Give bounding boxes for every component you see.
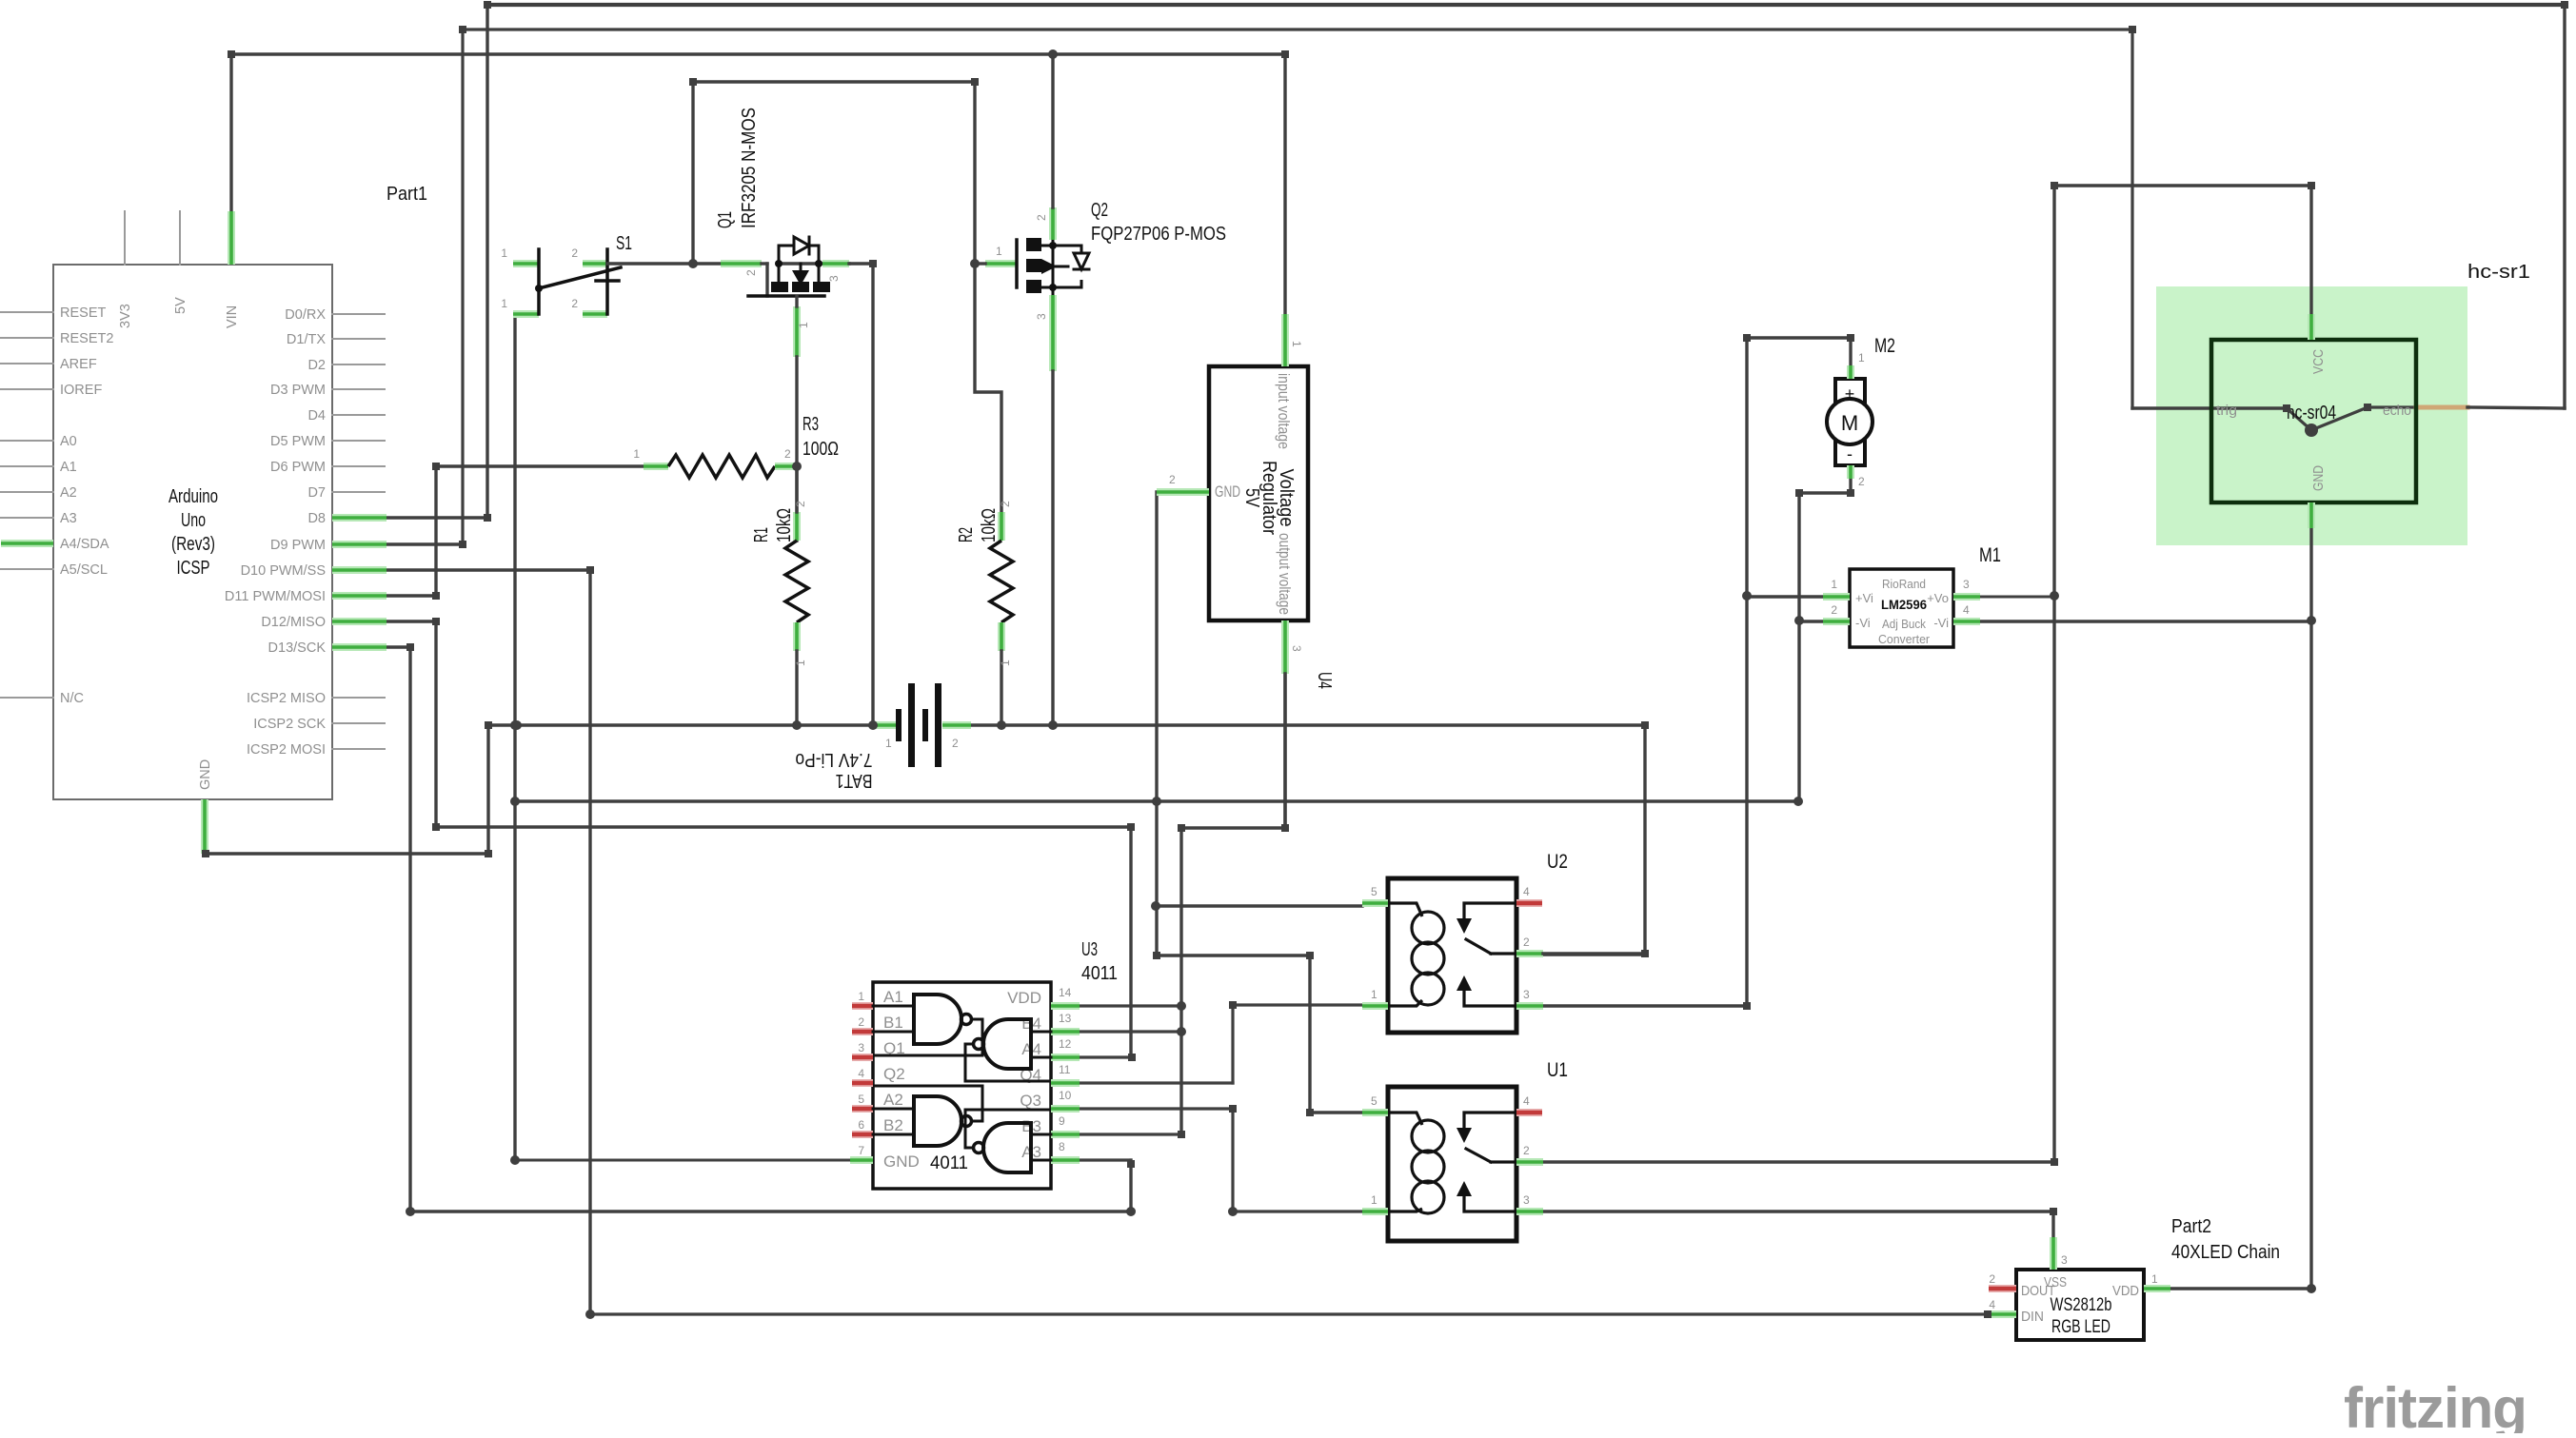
svg-text:4: 4 [1523,885,1530,898]
svg-text:M2: M2 [1874,335,1895,357]
svg-text:100Ω: 100Ω [803,439,839,460]
svg-text:4011: 4011 [1081,963,1118,984]
svg-text:D0/RX: D0/RX [285,307,326,323]
svg-text:+Vi: +Vi [1855,591,1873,605]
svg-text:hc-sr04: hc-sr04 [2287,403,2336,424]
svg-text:VDD: VDD [1007,989,1041,1007]
svg-text:ICSP2 SCK: ICSP2 SCK [253,717,326,732]
svg-text:1: 1 [1371,988,1377,1001]
svg-text:1: 1 [999,660,1012,666]
svg-text:GND: GND [198,759,213,790]
svg-text:13: 13 [1059,1012,1072,1025]
svg-text:D7: D7 [307,485,326,501]
svg-text:D3 PWM: D3 PWM [270,383,326,398]
svg-text:1: 1 [1371,1193,1377,1207]
svg-text:11: 11 [1059,1063,1071,1076]
svg-text:2: 2 [952,737,959,750]
svg-text:D9 PWM: D9 PWM [270,538,326,553]
svg-text:WS2812b: WS2812b [2051,1295,2112,1315]
svg-text:+Vo: +Vo [1927,591,1949,605]
svg-text:2: 2 [1523,1144,1530,1157]
svg-text:FQP27P06 P-MOS: FQP27P06 P-MOS [1091,224,1226,245]
svg-text:1: 1 [797,322,810,328]
svg-text:B1: B1 [883,1014,903,1032]
svg-text:RESET2: RESET2 [60,331,113,346]
svg-text:1: 1 [996,245,1002,258]
svg-text:D12/MISO: D12/MISO [261,615,326,630]
svg-text:Part2: Part2 [2171,1216,2211,1237]
svg-text:4: 4 [1963,603,1970,617]
svg-text:-: - [1847,444,1853,463]
svg-text:GND: GND [1215,483,1240,501]
svg-text:4011: 4011 [930,1153,968,1173]
svg-text:3: 3 [1523,988,1530,1001]
svg-text:8: 8 [1059,1140,1065,1153]
svg-text:ICSP2 MOSI: ICSP2 MOSI [247,742,326,758]
svg-text:2: 2 [999,501,1012,507]
svg-text:input voltage: input voltage [1275,373,1293,449]
svg-text:Adj Buck: Adj Buck [1882,617,1926,631]
svg-text:2: 2 [858,1015,864,1029]
svg-text:A2: A2 [883,1091,903,1109]
svg-text:2: 2 [1169,473,1176,486]
svg-text:U3: U3 [1081,939,1098,960]
svg-text:3: 3 [1963,578,1970,591]
svg-text:ICSP2 MISO: ICSP2 MISO [247,691,326,706]
svg-text:Converter: Converter [1878,632,1931,646]
svg-text:3: 3 [2061,1253,2068,1267]
svg-text:A4/SDA: A4/SDA [60,537,109,552]
svg-text:1: 1 [885,737,892,750]
svg-text:D8: D8 [307,511,326,526]
svg-text:3: 3 [1035,313,1048,320]
svg-text:Q3: Q3 [1020,1092,1041,1110]
svg-text:2: 2 [1831,603,1837,617]
svg-text:3: 3 [1290,645,1303,652]
svg-text:ICSP: ICSP [177,558,210,579]
svg-text:N/C: N/C [60,691,84,706]
svg-text:U4: U4 [1314,672,1335,689]
svg-text:1: 1 [2151,1272,2158,1286]
svg-text:IOREF: IOREF [60,383,102,398]
svg-text:-Vi: -Vi [1933,616,1949,630]
svg-text:fritzing: fritzing [2344,1376,2526,1433]
svg-text:R3: R3 [803,414,819,435]
svg-text:Q2: Q2 [883,1065,905,1083]
svg-text:6: 6 [858,1118,864,1132]
svg-text:5: 5 [1371,1094,1377,1108]
svg-text:B2: B2 [883,1116,903,1134]
svg-text:2: 2 [784,447,791,461]
svg-text:2: 2 [1989,1272,1995,1286]
svg-text:Q1: Q1 [715,211,736,228]
svg-text:A5/SCL: A5/SCL [60,562,108,578]
svg-text:7.4V Li-Po: 7.4V Li-Po [796,749,873,770]
svg-text:A3: A3 [60,511,77,526]
svg-text:1: 1 [1831,578,1837,591]
svg-text:5: 5 [858,1093,864,1106]
svg-text:M: M [1841,411,1858,435]
svg-text:2: 2 [1858,475,1865,488]
svg-text:VIN: VIN [225,305,240,328]
svg-text:2: 2 [571,297,578,310]
svg-text:A2: A2 [60,485,77,501]
svg-text:1: 1 [633,447,640,461]
svg-text:7: 7 [858,1144,864,1157]
svg-text:9: 9 [1059,1114,1065,1128]
svg-text:1: 1 [1858,351,1865,364]
svg-text:U1: U1 [1547,1059,1568,1081]
svg-text:2: 2 [1523,936,1530,949]
svg-text:1: 1 [858,990,864,1003]
svg-text:Q2: Q2 [1091,200,1108,221]
svg-text:trig: trig [2216,403,2237,419]
svg-text:R1: R1 [751,527,772,542]
svg-text:1: 1 [794,660,807,666]
svg-text:AREF: AREF [60,357,97,372]
svg-text:hc-sr1: hc-sr1 [2467,262,2530,283]
svg-text:Part1: Part1 [386,184,427,205]
svg-text:LM2596: LM2596 [1881,597,1927,612]
svg-text:3: 3 [827,275,841,282]
svg-text:D1/TX: D1/TX [287,332,326,347]
svg-text:echo: echo [2383,403,2411,419]
svg-text:R2: R2 [956,527,977,542]
svg-text:DIN: DIN [2021,1309,2044,1325]
svg-text:D13/SCK: D13/SCK [268,640,327,656]
svg-text:10kΩ: 10kΩ [774,508,795,542]
svg-text:1: 1 [501,297,507,310]
svg-text:D6 PWM: D6 PWM [270,460,326,475]
svg-text:A0: A0 [60,434,77,449]
svg-text:U2: U2 [1547,851,1568,873]
svg-text:D10 PWM/SS: D10 PWM/SS [241,563,326,579]
svg-text:VCC: VCC [2310,349,2327,374]
svg-text:IRF3205 N-MOS: IRF3205 N-MOS [739,108,760,228]
svg-text:+: + [1845,384,1855,404]
svg-text:3V3: 3V3 [118,304,133,328]
svg-text:Arduino: Arduino [168,486,218,507]
svg-text:(Rev3): (Rev3) [171,534,215,555]
svg-text:4: 4 [1989,1298,1995,1311]
svg-text:10: 10 [1059,1089,1072,1102]
svg-text:3: 3 [1523,1193,1530,1207]
svg-text:GND: GND [2310,465,2327,491]
svg-text:D4: D4 [307,408,326,424]
svg-text:10kΩ: 10kΩ [979,508,1000,542]
svg-text:D11 PWM/MOSI: D11 PWM/MOSI [225,589,326,604]
svg-text:4: 4 [858,1067,864,1080]
svg-text:RESET: RESET [60,305,106,321]
svg-text:output voltage: output voltage [1276,533,1294,615]
svg-text:1: 1 [1290,341,1303,347]
svg-text:5V: 5V [173,297,188,314]
svg-text:4: 4 [1523,1094,1530,1108]
svg-text:40XLED Chain: 40XLED Chain [2171,1242,2280,1263]
svg-text:A1: A1 [883,988,903,1006]
svg-text:S1: S1 [616,233,632,254]
svg-text:RGB LED: RGB LED [2051,1317,2110,1337]
svg-text:-Vi: -Vi [1855,616,1871,630]
svg-text:BAT1: BAT1 [836,770,873,791]
svg-text:VDD: VDD [2112,1283,2139,1299]
svg-text:5V: 5V [1241,488,1262,508]
svg-text:Uno: Uno [181,510,206,531]
svg-text:D2: D2 [307,358,326,373]
svg-text:A1: A1 [60,460,77,475]
svg-text:2: 2 [1035,214,1048,221]
svg-text:14: 14 [1059,986,1072,999]
svg-text:2: 2 [571,246,578,260]
svg-text:2: 2 [794,501,807,507]
svg-text:12: 12 [1059,1037,1072,1051]
svg-text:RioRand: RioRand [1882,577,1926,591]
svg-text:GND: GND [883,1152,920,1171]
svg-text:M1: M1 [1979,544,2001,566]
svg-text:1: 1 [501,246,507,260]
svg-text:2: 2 [744,269,758,276]
svg-text:5: 5 [1371,885,1377,898]
svg-text:D5 PWM: D5 PWM [270,434,326,449]
svg-text:3: 3 [858,1041,864,1054]
